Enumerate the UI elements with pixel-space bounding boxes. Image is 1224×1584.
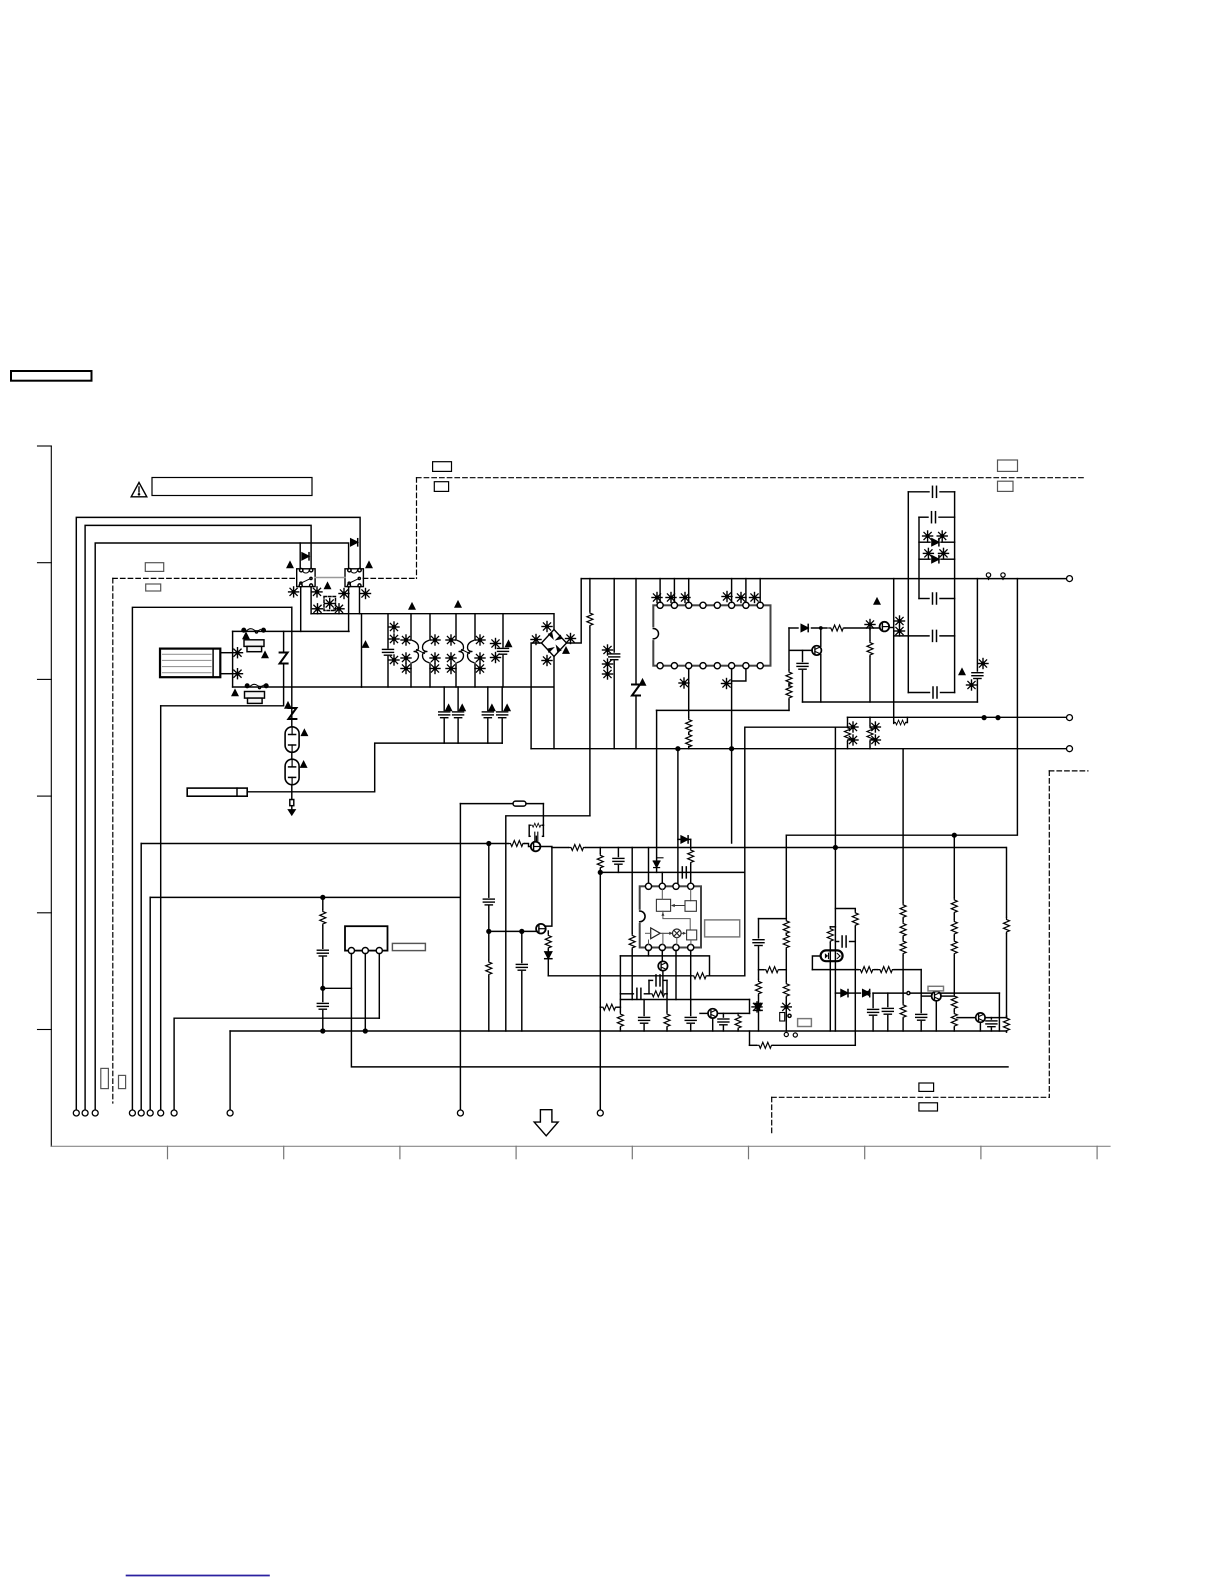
wire IC2 pinC [675, 950, 677, 999]
wire fb rail [621, 999, 749, 1001]
earth arrow [289, 806, 295, 815]
resistor feedback column [972, 579, 983, 702]
IC2 internal block2 [661, 901, 696, 930]
fusible resistor mark [603, 645, 613, 655]
fusible resistor mark [895, 626, 905, 636]
fusible resistor mark [475, 664, 485, 674]
terminal [138, 1110, 144, 1116]
bridge rectifier D1 [542, 630, 567, 657]
triangle mark [302, 730, 308, 736]
resistor Q6 [735, 1013, 741, 1031]
wire relay1 contact a [300, 587, 302, 632]
capacitor under rail1 [639, 1000, 650, 1032]
thermal fuse F1 [244, 640, 264, 652]
fusible resistor mark [401, 664, 411, 674]
wire gate feed [506, 816, 590, 1031]
wire Q4 emitter chain [545, 931, 552, 976]
capacitor gate Q4 [516, 931, 527, 1031]
ruler tick [38, 562, 52, 564]
capacitor coupling [682, 867, 686, 878]
surge arrester G2 [285, 759, 299, 785]
resistor column link [759, 967, 787, 973]
wire AC live from connector [76, 517, 360, 1110]
wire IC1 pin11 sense [686, 669, 692, 749]
label box [145, 563, 163, 572]
wire aux return [174, 1018, 379, 1110]
footer link line [127, 1575, 269, 1577]
triangle mark [301, 762, 307, 768]
resistor right column [951, 835, 957, 1031]
triangle mark [959, 669, 965, 675]
resistor sense link [894, 717, 908, 725]
junction [996, 716, 1000, 720]
wire mains upper [233, 630, 349, 632]
switch S2 [245, 684, 268, 689]
fusible resistor mark [430, 664, 440, 674]
triangle mark [366, 562, 372, 568]
wire IC1 pin14 [732, 669, 746, 681]
capacitor fb row [620, 988, 667, 999]
wire bridge ac bottom [553, 657, 555, 749]
triangle mark [459, 705, 465, 711]
bottom tick [748, 1146, 750, 1158]
fusible resistor mark [967, 680, 977, 690]
choke L2 [458, 641, 474, 663]
wire relay link gray [315, 577, 345, 579]
zener diode vcc [653, 710, 663, 872]
fusible resistor mark [923, 531, 933, 541]
transistor Q4 pass [536, 924, 546, 934]
connector pin mark [986, 573, 990, 580]
terminal [1067, 715, 1073, 721]
wire emitter rail [803, 701, 978, 703]
connector pin mark [1001, 573, 1005, 580]
fusible resistor mark [531, 635, 541, 645]
wire IC2 pinA loop [620, 950, 648, 956]
dashed stub right [1049, 770, 1088, 772]
wire arrester link [291, 752, 293, 759]
diode snubber2 [932, 556, 939, 563]
resistor opto led [827, 927, 835, 1031]
terminal [1067, 576, 1073, 582]
resistor damper a [845, 717, 851, 748]
warning label box [152, 478, 312, 496]
fusible resistor mark [312, 587, 322, 597]
triangle mark [455, 602, 461, 608]
resistor mid column [900, 749, 906, 1031]
capacitor line C7 [482, 687, 493, 743]
capacitor line C5 [439, 687, 450, 743]
wire long output return [787, 579, 1018, 836]
diode snubber1 [932, 539, 939, 546]
fusible resistor mark [313, 604, 323, 614]
bottom tick [515, 1146, 517, 1158]
fusible resistor mark [401, 635, 411, 645]
IC2 error amp [640, 883, 701, 950]
transistor Q6 [700, 1000, 750, 1032]
transistor Q8 [957, 1013, 1007, 1031]
fusible resistor mark [446, 653, 456, 663]
label box [119, 1075, 126, 1088]
junction [321, 986, 325, 990]
wire sub pin1 [351, 954, 1008, 1067]
label box [998, 460, 1018, 471]
junction [598, 871, 602, 875]
fusible resistor mark [666, 593, 676, 603]
bottom tick [980, 1146, 982, 1158]
fusible resistor mark [848, 735, 858, 745]
terminal [158, 1110, 164, 1116]
capacitor rail2 a [868, 993, 879, 1031]
wire IC2 pinD [690, 950, 692, 999]
junction [982, 716, 986, 720]
fusible resistor mark [870, 735, 880, 745]
bottom tick [399, 1146, 401, 1158]
wire vcc branch [657, 709, 790, 711]
wire bridge minus [531, 643, 541, 749]
wire IC2 left drop [619, 956, 621, 1000]
resistor snubber [531, 823, 542, 827]
bottom tick [1096, 1146, 1098, 1158]
fusible resistor mark [895, 616, 905, 626]
wire main negative bus [531, 748, 1067, 750]
bottom tick [167, 1146, 169, 1158]
fuse link F3 [513, 801, 526, 806]
fusible resistor mark [491, 639, 501, 649]
junction [520, 930, 524, 934]
resistor under rail1 [617, 1000, 623, 1032]
wire mid output rail [848, 716, 1067, 718]
junction [952, 833, 956, 837]
fusible resistor mark [401, 653, 411, 663]
resistor hv divider [1004, 848, 1010, 1018]
wire gate line Q3 [141, 841, 531, 847]
wire regulator output [552, 845, 1006, 851]
title box top-left [11, 371, 92, 381]
capacitor snubber5 [933, 687, 937, 698]
resistor under rail2 [664, 994, 670, 1031]
triangle mark [243, 633, 249, 639]
IC2 internal block1 [656, 889, 690, 911]
snubber block T1 [894, 486, 955, 692]
terminal [171, 1110, 177, 1116]
transistor Q3 regulator FET [531, 842, 541, 852]
triangle mark [640, 680, 646, 686]
diode startup [789, 624, 827, 631]
thermal fuse F2 [245, 692, 265, 704]
diode clamp branch [678, 836, 691, 843]
wire pfc rail [548, 973, 745, 979]
fusible resistor mark [233, 648, 243, 658]
wire transformer primary [893, 579, 895, 724]
bottom tick [631, 1146, 633, 1158]
terminal [92, 1110, 98, 1116]
wire filter output net bottom [362, 686, 554, 688]
wire standby drop [149, 897, 151, 1110]
fusible resistor mark [475, 635, 485, 645]
resistor opto [852, 911, 858, 1046]
resistor divider upper [786, 628, 792, 710]
triangle mark [325, 583, 331, 589]
wire IC1 pin8 [759, 579, 761, 603]
diode relay2 [351, 539, 358, 546]
label box [998, 481, 1014, 491]
flow arrow [534, 1110, 558, 1136]
resistor Q8 [1004, 1016, 1010, 1032]
fusible resistor mark [680, 593, 690, 603]
bottom ruler axis [51, 1145, 1110, 1147]
triangle mark [489, 705, 495, 711]
warning triangle [131, 483, 147, 497]
fusible resistor mark [430, 653, 440, 663]
junction [487, 930, 491, 934]
terminal [457, 1110, 463, 1116]
capacitor X2 [498, 614, 509, 687]
wire AC neutral from connector [85, 525, 311, 1110]
junction [363, 1029, 367, 1033]
fusible resistor mark [722, 679, 732, 689]
wire opto left lead [812, 956, 820, 970]
wire relay1 contact b [310, 587, 312, 614]
line filter LF1 [160, 649, 220, 678]
fusible resistor mark [361, 589, 371, 599]
fusible resistor mark [679, 678, 689, 688]
triangle mark [506, 641, 512, 647]
dashed boundary mid-left [113, 577, 297, 579]
junction [321, 1029, 325, 1033]
snubber RC loop [529, 804, 543, 842]
wire relay1 coil [299, 543, 301, 569]
resistor sub chain [317, 897, 328, 1031]
triangle mark [232, 690, 238, 696]
terminal [227, 1110, 233, 1116]
varistor Z2 [288, 708, 296, 719]
wire opto rail2 [835, 990, 999, 1032]
ruler tick [38, 912, 52, 914]
switch S1 [242, 628, 265, 633]
wire IC1 pin13 [731, 669, 733, 843]
fusible resistor mark [978, 659, 988, 669]
fusible resistor mark [339, 589, 349, 599]
dashed boundary left vertical [112, 578, 114, 1103]
resistor gate [829, 625, 880, 631]
triangle mark [285, 703, 291, 709]
varistor bus [632, 579, 640, 749]
junction [487, 842, 491, 846]
triangle mark [262, 652, 268, 658]
wire relay common [95, 543, 348, 1110]
capacitor end rail1 [916, 970, 927, 1031]
wire live bus from bundle [132, 607, 291, 1110]
triangle mark [504, 705, 510, 711]
fusible resistor mark [542, 656, 552, 666]
wire pin1 feed [648, 848, 650, 884]
ruler tick [38, 1029, 52, 1031]
wire bridge plus [567, 579, 582, 643]
fusible resistor mark [566, 634, 576, 644]
wire link to network [247, 743, 502, 792]
wire filter lead top [220, 652, 232, 654]
junction [834, 846, 838, 850]
capacitor under rail2 [685, 1000, 696, 1032]
fusible resistor mark [923, 548, 933, 558]
capacitor rail2 b [882, 993, 893, 1031]
capacitor base [797, 650, 808, 702]
wire sub pin2 [364, 954, 366, 1032]
choke L1 [413, 641, 429, 663]
capacitor Q8 [986, 1018, 997, 1031]
fusible resistor mark [848, 722, 858, 732]
junction [730, 747, 734, 751]
bottom tick [283, 1146, 285, 1158]
ruler tick [38, 678, 52, 680]
label box lower [798, 1019, 812, 1027]
connector pin mark [784, 1032, 788, 1036]
bottom tick [864, 1146, 866, 1158]
left ruler axis [50, 446, 52, 1146]
terminal [73, 1110, 79, 1116]
wire opto loop top [835, 909, 855, 911]
fusible resistor mark [389, 655, 399, 665]
capacitor snubber3 [933, 593, 937, 604]
connector pin mark [793, 1033, 797, 1037]
resistor left stub [600, 1004, 620, 1010]
resistor bleeder [587, 579, 593, 816]
IC2 comparator [646, 928, 674, 945]
triangle mark [363, 642, 369, 648]
fusible resistor mark [446, 664, 456, 674]
capacitor aux [613, 848, 624, 873]
junction [321, 896, 325, 900]
wire aux supply top b [526, 803, 543, 805]
fusible resistor mark [389, 634, 399, 644]
fusible link bar [187, 788, 247, 796]
transistor Q1 switching FET [880, 622, 894, 632]
ruler tick [38, 445, 52, 447]
IC2 multiplier [673, 929, 682, 945]
fusible resistor mark [389, 622, 399, 632]
fusible resistor mark [937, 531, 947, 541]
wire filter lead bottom [220, 673, 232, 675]
label box [919, 1083, 934, 1091]
label box Q7 [928, 986, 944, 991]
triangle mark [874, 599, 880, 605]
fusible resistor mark [233, 669, 243, 679]
wire Q4 gate [489, 930, 536, 932]
dashed boundary bottom [772, 1096, 1050, 1098]
fusible resistor mark [446, 635, 456, 645]
wire relay2 contact a [348, 587, 350, 632]
wire IC1 pin3 [688, 579, 690, 603]
fusible resistor mark [325, 599, 335, 609]
wire relay2 contact b [359, 587, 361, 614]
surge arrester G1 [285, 727, 299, 753]
triangle mark [287, 562, 293, 568]
fusible resistor mark [736, 593, 746, 603]
sub board module [345, 926, 388, 954]
fusible resistor mark [781, 1002, 791, 1012]
transistor Q5 [658, 950, 667, 993]
capacitor snubber [535, 832, 538, 840]
fusible resistor mark [652, 593, 662, 603]
resistor aux2 [629, 848, 635, 1000]
wire pfc box top [745, 727, 848, 976]
transistor Q2 driver [790, 626, 823, 702]
relay RY1 [297, 569, 315, 587]
terminal [129, 1110, 135, 1116]
wire DC plus bus [581, 578, 1066, 580]
wire discharge vertical [291, 607, 293, 727]
label box [146, 584, 161, 591]
wire return drop [229, 1031, 231, 1110]
wire opto column [834, 727, 836, 1031]
capacitor fb loop top [649, 975, 667, 994]
dashed boundary top [417, 477, 1084, 479]
wire aux supply top [460, 803, 513, 805]
wire network left [361, 614, 363, 687]
wire IC1 pin2 [673, 579, 675, 603]
fusible resistor mark [939, 548, 949, 558]
resistor earth [290, 800, 294, 806]
triangle mark [409, 604, 415, 610]
transistor Q7 [921, 991, 954, 1031]
wire vcc2 rail [600, 871, 744, 873]
wire standby feed [150, 896, 460, 898]
choke L2 leads [456, 614, 475, 687]
dashed option box [324, 597, 336, 611]
capacitor line C8 [497, 687, 508, 743]
wire sub link [323, 987, 352, 989]
wire gate drop to connector [140, 844, 142, 1110]
resistor divider chain [483, 844, 494, 1032]
capacitor snubber bus [609, 579, 620, 749]
choke L1 leads [411, 614, 430, 687]
wire to earth connector [160, 706, 162, 1110]
dashed boundary bottom-left vertical [771, 1097, 773, 1135]
fusible resistor mark [603, 659, 613, 669]
resistor source [867, 628, 873, 702]
wire bridge ac top [553, 614, 555, 630]
terminal [147, 1110, 153, 1116]
wire opto rail1 [812, 967, 921, 973]
capacitor Q6 [718, 1013, 729, 1031]
wire sub pin3 [378, 954, 380, 1019]
IC2 internal block3 [663, 930, 697, 945]
wire IC1 pin6 [731, 579, 733, 603]
capacitor line C6 [453, 687, 464, 743]
wire switch return [161, 687, 284, 706]
wire aux rail2 [597, 848, 603, 1110]
wire mains link [232, 631, 234, 687]
relay RY2 [345, 569, 363, 587]
IC2 label box [705, 920, 740, 937]
label box [919, 1103, 938, 1111]
dashed boundary corner [416, 478, 418, 579]
resistor damper b [867, 717, 873, 749]
dashed boundary mid-right [363, 577, 416, 579]
fusible resistor mark [752, 1002, 762, 1012]
wire return lower [230, 1030, 1006, 1032]
capacitor X1 [383, 614, 394, 687]
fusible resistor mark [334, 604, 344, 614]
fusible resistor mark [870, 722, 880, 732]
column sense right [783, 835, 789, 1031]
column sense left [753, 919, 764, 1031]
jumper bracket [780, 1013, 791, 1022]
capacitor opto loop [835, 936, 855, 947]
terminal [82, 1110, 88, 1116]
wire pin3 feed [677, 749, 679, 884]
